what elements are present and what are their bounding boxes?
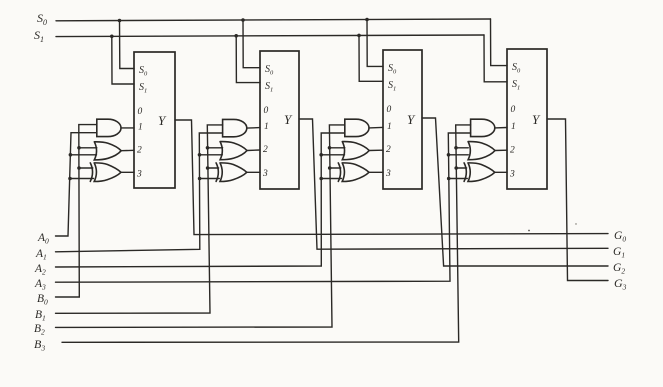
svg-text:S1: S1 bbox=[265, 81, 273, 94]
net A2 label bbox=[34, 263, 46, 277]
junction A1-G2B bbox=[198, 153, 202, 157]
wire Y4 output to G3 bbox=[547, 119, 608, 281]
wire Y3 output to G2 bbox=[422, 118, 608, 266]
net B3 label bbox=[34, 337, 45, 353]
wire A0 to G1C lower input bbox=[70, 178, 94, 180]
wire Y1 output to G0 bbox=[175, 120, 608, 235]
net B2 label bbox=[34, 323, 45, 337]
svg-text:2: 2 bbox=[510, 146, 515, 156]
wire S1 drop to U1 bbox=[112, 36, 134, 84]
wire A0 input bbox=[56, 133, 97, 236]
svg-text:2: 2 bbox=[263, 145, 268, 155]
wire A1 input bbox=[56, 133, 223, 252]
net A3 label bbox=[34, 278, 46, 292]
wire S0 drop to U3 bbox=[367, 20, 383, 67]
junction B3-G4B bbox=[454, 146, 458, 150]
wire G3C output to U3 pin3 bbox=[369, 171, 383, 173]
svg-text:Y: Y bbox=[532, 112, 541, 127]
junction B2-G3C bbox=[328, 166, 332, 170]
wire G1B output to U1 pin2 bbox=[121, 149, 134, 151]
net G3 label bbox=[614, 276, 627, 292]
svg-text:G3: G3 bbox=[614, 276, 627, 292]
wire S1 drop to U3 bbox=[359, 35, 383, 81]
svg-text:A0: A0 bbox=[37, 232, 49, 246]
svg-text:2: 2 bbox=[137, 146, 142, 156]
and-gate G4A (block 4) bbox=[471, 119, 495, 136]
net B1 label bbox=[35, 309, 46, 323]
svg-text:G0: G0 bbox=[614, 230, 626, 244]
net A1 label bbox=[35, 248, 47, 262]
wire B0 to G1C upper input bbox=[79, 167, 93, 169]
wire A3 input bbox=[56, 133, 471, 282]
junction A0-G1C bbox=[68, 177, 72, 181]
wire S0 drop to U4 bbox=[491, 19, 508, 66]
net G0 label bbox=[614, 230, 626, 244]
svg-text:S0: S0 bbox=[265, 64, 274, 77]
wire B2 input bbox=[56, 125, 345, 328]
wire G2C output to U2 pin3 bbox=[247, 171, 260, 173]
and-gate G1A (block 1) bbox=[97, 119, 121, 136]
junction A2-G3C bbox=[319, 177, 323, 181]
wire A1 to G2C lower input bbox=[200, 178, 220, 180]
wire A2 to G3B lower input bbox=[321, 154, 344, 156]
wire A2 to G3C lower input bbox=[321, 178, 341, 180]
wire G2B output to U2 pin2 bbox=[247, 149, 260, 152]
svg-text:B0: B0 bbox=[37, 293, 48, 307]
svg-text:A2: A2 bbox=[34, 263, 46, 277]
svg-text:G1: G1 bbox=[613, 246, 625, 260]
svg-text:1: 1 bbox=[511, 122, 516, 132]
junction B0-G1B bbox=[77, 146, 81, 150]
svg-text:S0: S0 bbox=[512, 62, 521, 75]
multiplexer U2 bbox=[260, 51, 299, 189]
wire A3 to G4B lower input bbox=[449, 154, 469, 156]
svg-text:Y: Y bbox=[407, 112, 416, 127]
net B0 label bbox=[37, 293, 48, 307]
svg-text:0: 0 bbox=[138, 107, 143, 117]
ink speck bbox=[575, 223, 576, 224]
svg-text:0: 0 bbox=[387, 105, 392, 115]
wire B1 to G2B upper input bbox=[208, 147, 223, 149]
junction A0-G1B bbox=[69, 153, 73, 157]
svg-text:B3: B3 bbox=[34, 337, 45, 353]
svg-text:1: 1 bbox=[387, 122, 392, 132]
xor-gate G3C (block 3) bbox=[338, 163, 369, 182]
svg-text:B2: B2 bbox=[34, 323, 45, 337]
junction B0-G1C bbox=[77, 166, 81, 170]
and-gate G3A (block 3) bbox=[345, 119, 369, 136]
svg-text:3: 3 bbox=[509, 170, 515, 180]
xor-gate G4C (block 4) bbox=[464, 163, 495, 182]
svg-text:A3: A3 bbox=[34, 278, 46, 292]
xor-gate G1C (block 1) bbox=[90, 163, 121, 182]
net G1 label bbox=[613, 246, 625, 260]
wire A1 to G2B lower input bbox=[200, 154, 223, 156]
svg-text:3: 3 bbox=[385, 169, 391, 179]
wire G1A output to U1 pin1 bbox=[121, 127, 134, 129]
svg-text:0: 0 bbox=[264, 106, 269, 116]
svg-text:1: 1 bbox=[264, 122, 269, 132]
wire A0 to G1B lower input bbox=[70, 154, 96, 156]
or-gate G2B (block 2) bbox=[220, 142, 247, 160]
or-gate G1B (block 1) bbox=[94, 142, 121, 160]
svg-text:S1: S1 bbox=[34, 28, 44, 44]
wire S0 drop to U1 bbox=[120, 21, 135, 69]
svg-text:S0: S0 bbox=[388, 63, 397, 76]
wire A3 to G4C lower input bbox=[449, 178, 468, 180]
wire B2 to G3B upper input bbox=[330, 147, 345, 149]
wire B1 to G2C upper input bbox=[208, 167, 219, 169]
xor-gate G2C (block 2) bbox=[216, 163, 247, 182]
svg-text:S0: S0 bbox=[139, 65, 148, 78]
wire S1 drop to U4 bbox=[484, 35, 507, 82]
wire S1 drop to U2 bbox=[236, 36, 260, 83]
junction B2-G3B bbox=[328, 146, 332, 150]
wire G3B output to U3 pin2 bbox=[369, 149, 383, 151]
wire G1C output to U1 pin3 bbox=[121, 171, 134, 173]
junction S1-U2 bbox=[234, 34, 238, 38]
svg-text:S1: S1 bbox=[388, 80, 396, 93]
or-gate G3B (block 3) bbox=[342, 142, 369, 160]
wire B3 to G4B upper input bbox=[456, 147, 468, 149]
junction B1-G2C bbox=[206, 166, 210, 170]
wire B3 input bbox=[62, 125, 471, 342]
wire G2A output to U2 pin1 bbox=[247, 127, 260, 130]
svg-text:S1: S1 bbox=[512, 79, 520, 92]
svg-text:0: 0 bbox=[511, 105, 516, 115]
wire G4B output to U4 pin2 bbox=[495, 149, 507, 151]
svg-text:3: 3 bbox=[136, 170, 142, 180]
wire B3 to G4C upper input bbox=[456, 167, 466, 169]
wire S0 bus bbox=[56, 19, 491, 21]
svg-text:3: 3 bbox=[262, 169, 268, 179]
net G2 label bbox=[613, 262, 625, 276]
wire Y2 output to G1 bbox=[299, 119, 608, 249]
multiplexer U4 bbox=[507, 49, 547, 189]
wire S1 bus bbox=[56, 35, 484, 37]
svg-text:S0: S0 bbox=[37, 11, 47, 27]
junction A1-G2C bbox=[198, 177, 202, 181]
ink speck bbox=[528, 230, 530, 232]
net S0 label bbox=[37, 11, 47, 27]
svg-text:A1: A1 bbox=[35, 248, 47, 262]
junction S0-U1 bbox=[118, 19, 122, 23]
junction S0-U2 bbox=[241, 18, 245, 22]
wire A2 input bbox=[56, 133, 345, 267]
junction S0-U3 bbox=[365, 18, 369, 22]
net S1 label bbox=[34, 28, 44, 44]
junction A3-G4B bbox=[447, 153, 451, 157]
svg-text:B1: B1 bbox=[35, 309, 46, 323]
junction B3-G4C bbox=[454, 166, 458, 170]
net A0 label bbox=[37, 232, 49, 246]
svg-text:Y: Y bbox=[158, 113, 167, 128]
svg-text:1: 1 bbox=[138, 123, 143, 133]
multiplexer U3 bbox=[383, 50, 422, 189]
wire B0 input bbox=[56, 125, 97, 297]
junction S1-U3 bbox=[357, 34, 361, 38]
svg-text:Y: Y bbox=[284, 112, 293, 127]
svg-text:2: 2 bbox=[386, 145, 391, 155]
wire B1 input bbox=[56, 125, 223, 313]
junction A3-G4C bbox=[447, 177, 451, 181]
and-gate G2A (block 2) bbox=[223, 119, 247, 136]
wire B2 to G3C upper input bbox=[330, 167, 341, 169]
wire G3A output to U3 pin1 bbox=[369, 126, 383, 129]
junction B1-G2B bbox=[206, 146, 210, 150]
multiplexer U1 bbox=[134, 52, 175, 188]
junction S1-U1 bbox=[110, 35, 114, 39]
or-gate G4B (block 4) bbox=[468, 142, 495, 160]
wire B0 to G1B upper input bbox=[79, 147, 97, 149]
wire G4C output to U4 pin3 bbox=[495, 171, 507, 173]
wire G4A output to U4 pin1 bbox=[495, 127, 507, 129]
svg-text:G2: G2 bbox=[613, 262, 625, 276]
junction A2-G3B bbox=[319, 153, 323, 157]
wire S0 drop to U2 bbox=[243, 20, 260, 68]
svg-text:S1: S1 bbox=[139, 82, 147, 95]
